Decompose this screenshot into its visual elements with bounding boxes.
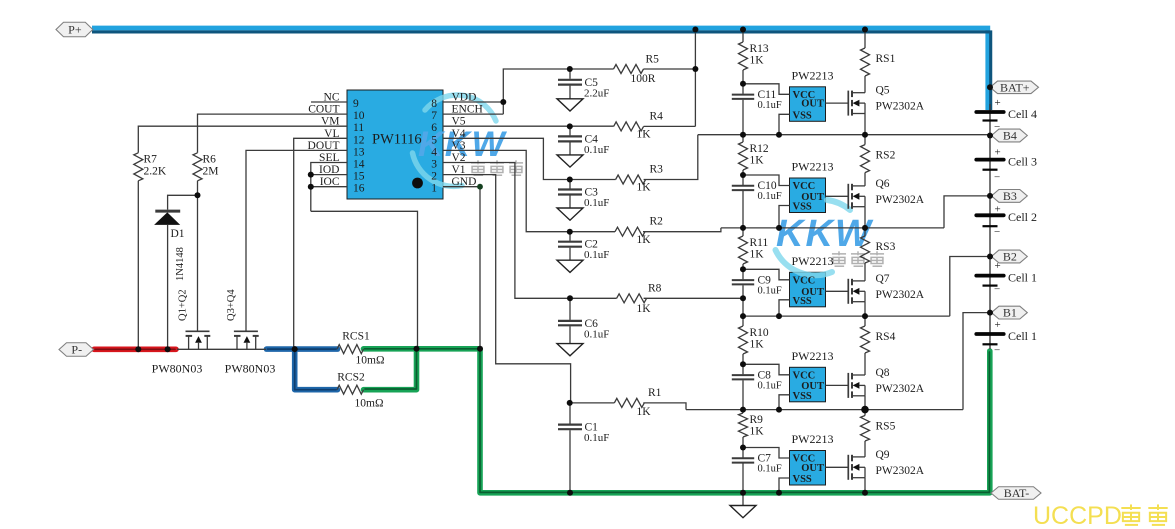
svg-text:R13: R13 <box>750 43 769 55</box>
pin 1 marker dot U1 <box>412 178 423 189</box>
battery Cell 4 (cell 1 from top) <box>976 97 1037 133</box>
diode D1 1N4148 <box>154 211 186 281</box>
wire V3 to C2/R2 node <box>443 150 615 231</box>
resistor R8 1K <box>617 283 662 316</box>
svg-text:P+: P+ <box>68 23 82 37</box>
capacitor C11 0.1uF <box>732 84 782 135</box>
transistor Q3+Q4 PW80N03 <box>225 289 276 376</box>
op-amp U2 PW2213 body row 1 <box>790 87 826 122</box>
op-amp U5 PW2213 labels and pins <box>792 349 834 402</box>
wire R7 bottom to P- rail <box>137 181 139 349</box>
svg-text:RS2: RS2 <box>876 150 896 162</box>
svg-text:B2: B2 <box>1003 250 1017 264</box>
wire VL pin 12 down to blue sense node <box>294 138 347 348</box>
wire VCC jog U2 <box>743 84 790 95</box>
svg-text:B3: B3 <box>1003 189 1017 203</box>
wire bottom rail between P- and blue net <box>177 348 266 350</box>
svg-text:R4: R4 <box>650 111 664 123</box>
wire VCC jog U3 <box>743 175 790 186</box>
svg-text:0.1uF: 0.1uF <box>584 197 609 209</box>
svg-text:1K: 1K <box>750 426 765 438</box>
wire OUT U6 to Q9 gate <box>826 466 849 468</box>
svg-text:3: 3 <box>431 159 437 171</box>
svg-text:PW2213: PW2213 <box>792 68 834 82</box>
resistor R9 1K <box>739 413 765 438</box>
svg-text:0.1uF: 0.1uF <box>758 100 782 111</box>
pin label NC (pin 9) U1 <box>324 92 340 104</box>
svg-text:R3: R3 <box>650 164 664 176</box>
svg-text:2.2K: 2.2K <box>144 166 167 178</box>
svg-text:0.1uF: 0.1uF <box>758 464 782 475</box>
svg-text:2M: 2M <box>203 166 219 178</box>
battery Cell 1 (cell 5 from top) <box>976 319 1037 357</box>
wire GND pin down to green node <box>443 187 480 348</box>
svg-text:B4: B4 <box>1003 129 1017 143</box>
battery Cell 3 (cell 2 from top) <box>976 147 1037 184</box>
op-amp U1 PW1116 label and pin numbers <box>353 98 437 195</box>
svg-text:−: − <box>994 345 1000 357</box>
svg-text:PW80N03: PW80N03 <box>152 362 203 376</box>
svg-text:OUT: OUT <box>801 99 824 110</box>
svg-text:PW2213: PW2213 <box>792 432 834 446</box>
wire OUT U2 to Q5 gate <box>826 102 849 104</box>
wire R3 right to B4 net <box>644 135 698 180</box>
pin label VDD (pin 8) U1 <box>452 92 477 104</box>
wire DOUT pin 13 to Q3/Q4 gate <box>246 150 347 330</box>
transistor Q6 PW2302A <box>848 178 924 228</box>
svg-text:1K: 1K <box>750 339 765 351</box>
wire NC stub pin 9 <box>311 101 347 103</box>
svg-text:0.1uF: 0.1uF <box>758 285 782 296</box>
svg-text:R12: R12 <box>750 143 769 155</box>
svg-text:11: 11 <box>353 122 364 134</box>
svg-text:R2: R2 <box>650 216 664 228</box>
svg-text:1K: 1K <box>637 303 652 315</box>
svg-text:Q1+Q2: Q1+Q2 <box>178 289 189 321</box>
wire R6 bottom to Q1/Q2 gate <box>197 181 199 331</box>
svg-text:1N4148: 1N4148 <box>175 247 186 281</box>
svg-text:R10: R10 <box>750 327 769 339</box>
svg-text:8: 8 <box>431 98 437 110</box>
wire R2 right to B3 net <box>643 228 721 232</box>
wire VCC jog U6 <box>743 448 790 459</box>
svg-text:KKW: KKW <box>776 213 874 255</box>
svg-text:BAT+: BAT+ <box>1000 80 1030 94</box>
svg-text:−: − <box>994 283 1000 295</box>
wire R12 vertical connections <box>742 135 744 175</box>
ground symbol below C2 <box>557 260 583 272</box>
wire COUT pin 10 to R6 top <box>198 114 348 153</box>
svg-text:RCS1: RCS1 <box>342 331 370 343</box>
capacitor C10 0.1uF <box>732 175 782 228</box>
node B3 flag <box>991 189 1027 203</box>
transistor Q9 PW2302A <box>848 449 924 493</box>
wire OUT U4 to Q7 gate <box>826 290 849 292</box>
pin label V5 (pin 6) U1 <box>452 116 466 128</box>
wire OUT U5 to Q8 gate <box>826 384 849 386</box>
wire R5 line to BAT+ riser <box>570 33 696 126</box>
svg-text:1K: 1K <box>750 55 765 67</box>
svg-text:1: 1 <box>431 183 437 195</box>
pin label IOC (pin 16) U1 <box>320 176 340 188</box>
node B2 flag <box>991 250 1027 264</box>
wire R11 vertical connections <box>742 228 744 269</box>
resistor R10 1K <box>739 326 769 354</box>
resistor R1 1K <box>614 387 661 418</box>
transistor Q7 PW2302A <box>848 273 924 316</box>
resistor R3 1K <box>616 164 664 194</box>
svg-text:Cell 2: Cell 2 <box>1008 210 1037 224</box>
wire green BAT- net (RCS outputs, GND, bottom rail) <box>364 349 990 493</box>
op-amp U3 PW2213 body row 2 <box>790 178 826 213</box>
svg-text:PW2213: PW2213 <box>792 349 834 363</box>
ground symbol below C5 <box>557 99 583 111</box>
svg-text:100R: 100R <box>631 73 656 85</box>
svg-text:PW2302A: PW2302A <box>876 383 925 395</box>
op-amp U6 PW2213 labels and pins <box>792 432 834 485</box>
svg-text:BAT-: BAT- <box>1004 486 1030 500</box>
resistor R12 1K <box>739 142 769 170</box>
svg-text:+: + <box>995 97 1001 109</box>
svg-text:R8: R8 <box>648 283 662 295</box>
wire IOD/IOC run to green node <box>311 211 418 348</box>
wire R13 vertical connections <box>742 30 744 84</box>
svg-text:2.2uF: 2.2uF <box>584 87 609 99</box>
wire VSS jog U3 <box>779 206 790 228</box>
svg-text:+: + <box>995 147 1001 159</box>
svg-text:15: 15 <box>353 171 365 183</box>
ground symbol below C6 <box>557 344 583 356</box>
resistor RS3 <box>861 228 896 281</box>
resistor R5 100R <box>614 54 660 86</box>
svg-text:PW2302A: PW2302A <box>876 465 925 477</box>
resistor R4 1K <box>614 111 664 141</box>
svg-text:0.1uF: 0.1uF <box>758 380 782 391</box>
pin label GND (pin 1) U1 <box>452 176 477 188</box>
svg-text:6: 6 <box>431 122 437 134</box>
capacitor C6 0.1uF <box>558 298 609 343</box>
wire VCC jog U4 <box>743 269 790 280</box>
transistor Q1+Q2 PW80N03 <box>152 289 211 375</box>
wire IOC stub pin 16 <box>311 186 347 188</box>
svg-text:VSS: VSS <box>793 474 812 485</box>
svg-text:0.1uF: 0.1uF <box>584 249 609 261</box>
transistor Q5 PW2302A <box>848 85 924 135</box>
watermark KKW logo 2 <box>776 200 885 275</box>
svg-text:P-: P- <box>71 343 82 357</box>
svg-text:R9: R9 <box>750 414 764 426</box>
wire VSS jog U4 <box>779 300 790 316</box>
capacitor C5 2.2uF <box>558 69 609 99</box>
svg-text:1K: 1K <box>637 129 652 141</box>
wire B4 net line <box>698 134 988 136</box>
svg-text:0.1uF: 0.1uF <box>584 144 609 156</box>
resistor R2 1K <box>615 216 663 247</box>
svg-text:R1: R1 <box>648 387 662 399</box>
wire R1 right to B1 net <box>643 403 686 410</box>
wire VCC jog U5 <box>743 364 790 375</box>
resistor RCS1 10mohm <box>337 331 385 367</box>
svg-text:0.1uF: 0.1uF <box>758 191 782 202</box>
node P+ flag <box>56 22 93 37</box>
capacitor C9 0.1uF <box>732 269 782 316</box>
wire node R6-D1 branch <box>168 195 198 209</box>
wire VM pin 11 to R7 top <box>138 126 347 153</box>
svg-text:RCS2: RCS2 <box>337 372 365 384</box>
svg-text:VCC: VCC <box>793 275 816 286</box>
node B1 flag <box>991 306 1027 320</box>
resistor R7 <box>134 153 167 181</box>
svg-text:13: 13 <box>353 146 365 158</box>
pin label SEL (pin 14) U1 <box>319 152 339 164</box>
op-amp U5 PW2213 body row 4 <box>790 367 826 402</box>
pin label DOUT (pin 13) U1 <box>308 140 340 152</box>
battery Cell 2 (cell 3 from top) <box>976 204 1037 239</box>
wire blue current-sense net (MOSFETs to RCS1/RCS2) <box>267 349 338 390</box>
ground symbol below C4 <box>557 155 583 167</box>
wire VDD/ENCH to R5/C5 node <box>443 69 570 114</box>
resistor RCS2 10mohm <box>337 372 384 410</box>
svg-text:1K: 1K <box>637 406 652 418</box>
op-amp U1 PW1116 IC body <box>347 90 443 199</box>
svg-text:4: 4 <box>431 146 437 158</box>
wire V4 to C3/R3 node <box>443 138 616 179</box>
svg-text:Cell 3: Cell 3 <box>1008 155 1037 169</box>
node B4 flag <box>991 129 1027 143</box>
resistor RS5 <box>861 410 896 457</box>
svg-text:R6: R6 <box>203 154 217 166</box>
wire V2 to C6/R8 node <box>443 163 617 299</box>
resistor R6 <box>193 153 218 181</box>
svg-text:Cell 1: Cell 1 <box>1008 270 1037 284</box>
wire R8 right to B2 net <box>644 297 743 299</box>
svg-text:PW2302A: PW2302A <box>876 101 925 113</box>
wire B1 net line with jog <box>686 313 988 410</box>
svg-text:Q9: Q9 <box>876 449 890 461</box>
pin label V3 (pin 4) U1 <box>452 140 466 152</box>
node BAT+ flag <box>990 80 1039 94</box>
svg-text:PW2213: PW2213 <box>792 254 834 268</box>
wire P- net thick red segment <box>94 346 176 352</box>
svg-text:16: 16 <box>353 183 365 195</box>
pin label V1 (pin 2) U1 <box>452 164 466 176</box>
ground symbol below BAT- rail <box>730 493 756 518</box>
svg-text:Cell 1: Cell 1 <box>1008 329 1037 343</box>
svg-text:OUT: OUT <box>801 463 824 474</box>
svg-text:RS5: RS5 <box>876 421 896 433</box>
node BAT- flag <box>991 486 1041 500</box>
svg-text:PW1116: PW1116 <box>372 132 422 148</box>
pin label COUT (pin 10) U1 <box>308 104 339 116</box>
capacitor C8 0.1uF <box>732 364 782 409</box>
svg-text:10: 10 <box>353 110 365 122</box>
svg-text:+: + <box>995 319 1001 331</box>
svg-text:−: − <box>994 171 1000 183</box>
svg-text:10mΩ: 10mΩ <box>355 398 384 410</box>
svg-text:1K: 1K <box>750 249 765 261</box>
wire VSS jog U5 <box>779 395 790 410</box>
wire P+ net thick blue rail (P+ to BAT+) <box>92 28 991 110</box>
svg-text:PW2302A: PW2302A <box>876 289 925 301</box>
wire R4 right to riser <box>644 125 696 127</box>
capacitor C7 0.1uF <box>732 448 782 493</box>
svg-text:D1: D1 <box>171 228 185 240</box>
wire VSS jog U2 <box>779 114 790 134</box>
svg-text:Q7: Q7 <box>876 273 890 285</box>
svg-text:PW80N03: PW80N03 <box>225 362 276 376</box>
battery Cell 1 (cell 4 from top) <box>976 260 1037 295</box>
svg-text:R7: R7 <box>144 154 158 166</box>
junction dot GND pin (green) <box>477 184 483 190</box>
op-amp U4 PW2213 labels and pins <box>792 254 834 307</box>
svg-text:VSS: VSS <box>793 110 812 121</box>
wire V1 to C1/R1 node <box>443 175 614 403</box>
svg-text:PW2213: PW2213 <box>792 160 834 174</box>
watermark UCCPD forum text <box>1033 502 1168 529</box>
capacitor C4 0.1uF <box>558 126 609 155</box>
svg-text:14: 14 <box>353 159 365 171</box>
svg-text:R5: R5 <box>646 54 660 66</box>
wire VSS jog U6 <box>779 478 790 493</box>
svg-text:7: 7 <box>431 110 437 122</box>
op-amp U6 PW2213 body row 5 <box>790 451 826 486</box>
svg-text:1K: 1K <box>750 155 765 167</box>
svg-text:10mΩ: 10mΩ <box>356 355 385 367</box>
wire D1 anode to P- rail <box>167 225 169 349</box>
svg-text:0.1uF: 0.1uF <box>584 432 609 444</box>
wire B2 net line with jog <box>743 257 988 317</box>
svg-text:VSS: VSS <box>793 391 812 402</box>
svg-text:Cell 4: Cell 4 <box>1008 107 1037 121</box>
watermark KKW logo 1 <box>413 95 524 186</box>
svg-text:RS1: RS1 <box>876 53 896 65</box>
svg-text:R11: R11 <box>750 237 769 249</box>
wire IOD stub pin 15 <box>311 174 347 176</box>
svg-text:1K: 1K <box>637 234 652 246</box>
resistor RS4 <box>861 316 896 375</box>
svg-text:VCC: VCC <box>793 370 816 381</box>
svg-text:2: 2 <box>431 171 437 183</box>
svg-text:−: − <box>994 226 1000 238</box>
pin label V2 (pin 3) U1 <box>452 152 466 164</box>
svg-text:Q3+Q4: Q3+Q4 <box>226 289 237 321</box>
pin label IOD (pin 15) U1 <box>319 164 339 176</box>
svg-text:RS4: RS4 <box>876 331 896 343</box>
wire V5 to C4/R4 node <box>443 125 614 127</box>
pin label ENCH (pin 7) U1 <box>452 104 483 116</box>
wire SEL pin 14 joining IOD/IOC <box>311 163 347 212</box>
wire OUT U3 to Q6 gate <box>826 195 849 197</box>
resistor R13 1K <box>739 42 769 70</box>
svg-text:VCC: VCC <box>793 181 816 192</box>
svg-text:Q6: Q6 <box>876 178 890 190</box>
svg-text:VSS: VSS <box>793 296 812 307</box>
svg-text:PW2302A: PW2302A <box>876 194 925 206</box>
node P- flag <box>59 343 94 357</box>
svg-text:12: 12 <box>353 134 365 146</box>
op-amp U2 PW2213 labels and pins <box>792 68 834 121</box>
svg-text:UCCPD: UCCPD <box>1033 502 1122 529</box>
pin label VM (pin 11) U1 <box>321 116 340 128</box>
wire R10 vertical connections <box>742 316 744 364</box>
wire B3 net line with jog <box>721 196 988 228</box>
svg-text:0.1uF: 0.1uF <box>584 328 609 340</box>
resistor RS2 <box>861 135 896 186</box>
capacitor C3 0.1uF <box>558 180 609 210</box>
svg-text:Q5: Q5 <box>876 85 890 97</box>
svg-text:VSS: VSS <box>793 202 812 213</box>
wire R9 vertical connections <box>742 410 744 448</box>
resistor R11 1K <box>739 236 769 264</box>
svg-text:1K: 1K <box>637 182 652 194</box>
capacitor C2 0.1uF <box>558 232 609 262</box>
transistor Q8 PW2302A <box>848 367 924 410</box>
ground symbol below C3 <box>557 208 583 220</box>
svg-text:RS3: RS3 <box>876 241 896 253</box>
pin label V4 (pin 5) U1 <box>452 128 466 140</box>
svg-text:B1: B1 <box>1003 306 1017 320</box>
svg-text:+: + <box>995 204 1001 216</box>
pin label VL (pin 12) U1 <box>324 128 339 140</box>
svg-text:5: 5 <box>431 134 437 146</box>
svg-text:Q8: Q8 <box>876 367 890 379</box>
op-amp U4 PW2213 body row 3 <box>790 272 826 307</box>
svg-text:9: 9 <box>353 98 359 110</box>
op-amp U3 PW2213 labels and pins <box>792 160 834 213</box>
resistor RS1 <box>861 30 896 93</box>
wire battery stack spine <box>989 104 991 349</box>
capacitor C1 0.1uF <box>558 403 609 493</box>
